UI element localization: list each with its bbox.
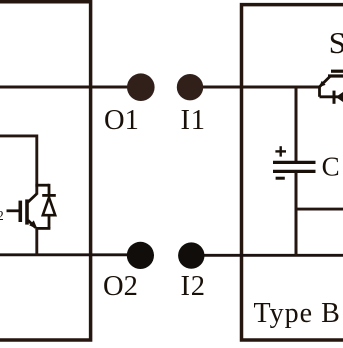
diode D1 triangle (filled, pointing left) bbox=[336, 92, 343, 102]
transistor S2 IGBT: gate bar bbox=[18, 201, 22, 222]
svg-text:S: S bbox=[329, 25, 343, 60]
wire: terminal I2 into Type B box to capacitor rail and beyond bbox=[191, 254, 343, 257]
wire: mid branch from capacitor rail to right edge bbox=[296, 208, 343, 211]
wire: lower rail inside Type A to terminal O2 bbox=[0, 253, 140, 256]
transistor S2 IGBT: collector lead diagonal bbox=[28, 194, 37, 203]
transistor S2 IGBT: emitter lead diagonal with arrowhead bbox=[28, 220, 38, 229]
wire: diode D2 cathode lead bbox=[48, 184, 51, 196]
diode D2 triangle (anode, pointing up) bbox=[43, 197, 55, 215]
wire: S2 branch vertical down to IGBT collector bbox=[35, 135, 38, 195]
wire: S1 anti-parallel diode branch vertical connector bbox=[318, 86, 321, 97]
node I1 terminal dot bbox=[177, 74, 203, 100]
wire: capacitor rail lower segment bbox=[295, 172, 298, 256]
svg-text:I1: I1 bbox=[181, 105, 206, 136]
capacitor C1 bottom plate bbox=[273, 170, 316, 173]
wire: diode D2 anode lead bbox=[48, 215, 51, 229]
wire: diode D2 bottom jog bbox=[35, 227, 50, 230]
wire: S2 branch top horizontal from left edge bbox=[0, 134, 37, 137]
Type A module box (left, cut off at left edge) bbox=[0, 2, 91, 340]
transistor S2 IGBT: body bar bbox=[25, 199, 29, 224]
node I2 terminal dot bbox=[178, 242, 204, 268]
wire: S2 branch vertical down to lower rail bbox=[35, 228, 38, 256]
svg-text:2: 2 bbox=[0, 208, 4, 223]
svg-text:O2: O2 bbox=[103, 271, 138, 302]
wire: diode D2 top jog bbox=[35, 184, 49, 187]
transistor S1 IGBT (horizontal, cut off at right edge): gate bar bbox=[331, 70, 343, 73]
svg-text:Type B: Type B bbox=[254, 298, 341, 329]
diode D2 cathode bar bbox=[42, 194, 56, 197]
wire: terminal I1 into Type B box to S1 emitter junction bbox=[190, 86, 320, 89]
svg-text:O1: O1 bbox=[104, 105, 139, 136]
svg-text:C: C bbox=[322, 152, 340, 182]
transistor S1 IGBT: body bar bbox=[328, 74, 343, 77]
capacitor C1 top plate bbox=[273, 161, 316, 164]
wire: upper rail inside Type A to terminal O1 bbox=[0, 86, 140, 89]
node O1 terminal dot bbox=[127, 73, 155, 101]
capacitor C1 polarity plus sign bbox=[275, 146, 286, 156]
transistor S2 IGBT: gate lead bbox=[7, 209, 20, 212]
Type B module box (right, cut off at right edge) bbox=[242, 5, 343, 340]
capacitor C1 polarity minus sign bbox=[276, 177, 285, 180]
node O2 terminal dot bbox=[127, 242, 154, 269]
wire: S1 anti-parallel diode branch horizontal bbox=[320, 95, 343, 98]
svg-text:I2: I2 bbox=[181, 271, 206, 302]
wire: capacitor rail upper segment bbox=[295, 87, 298, 162]
diode D1 cathode bar (vertical) bbox=[333, 91, 336, 104]
transistor S1 IGBT: emitter lead diagonal with arrowhead bbox=[319, 77, 330, 88]
